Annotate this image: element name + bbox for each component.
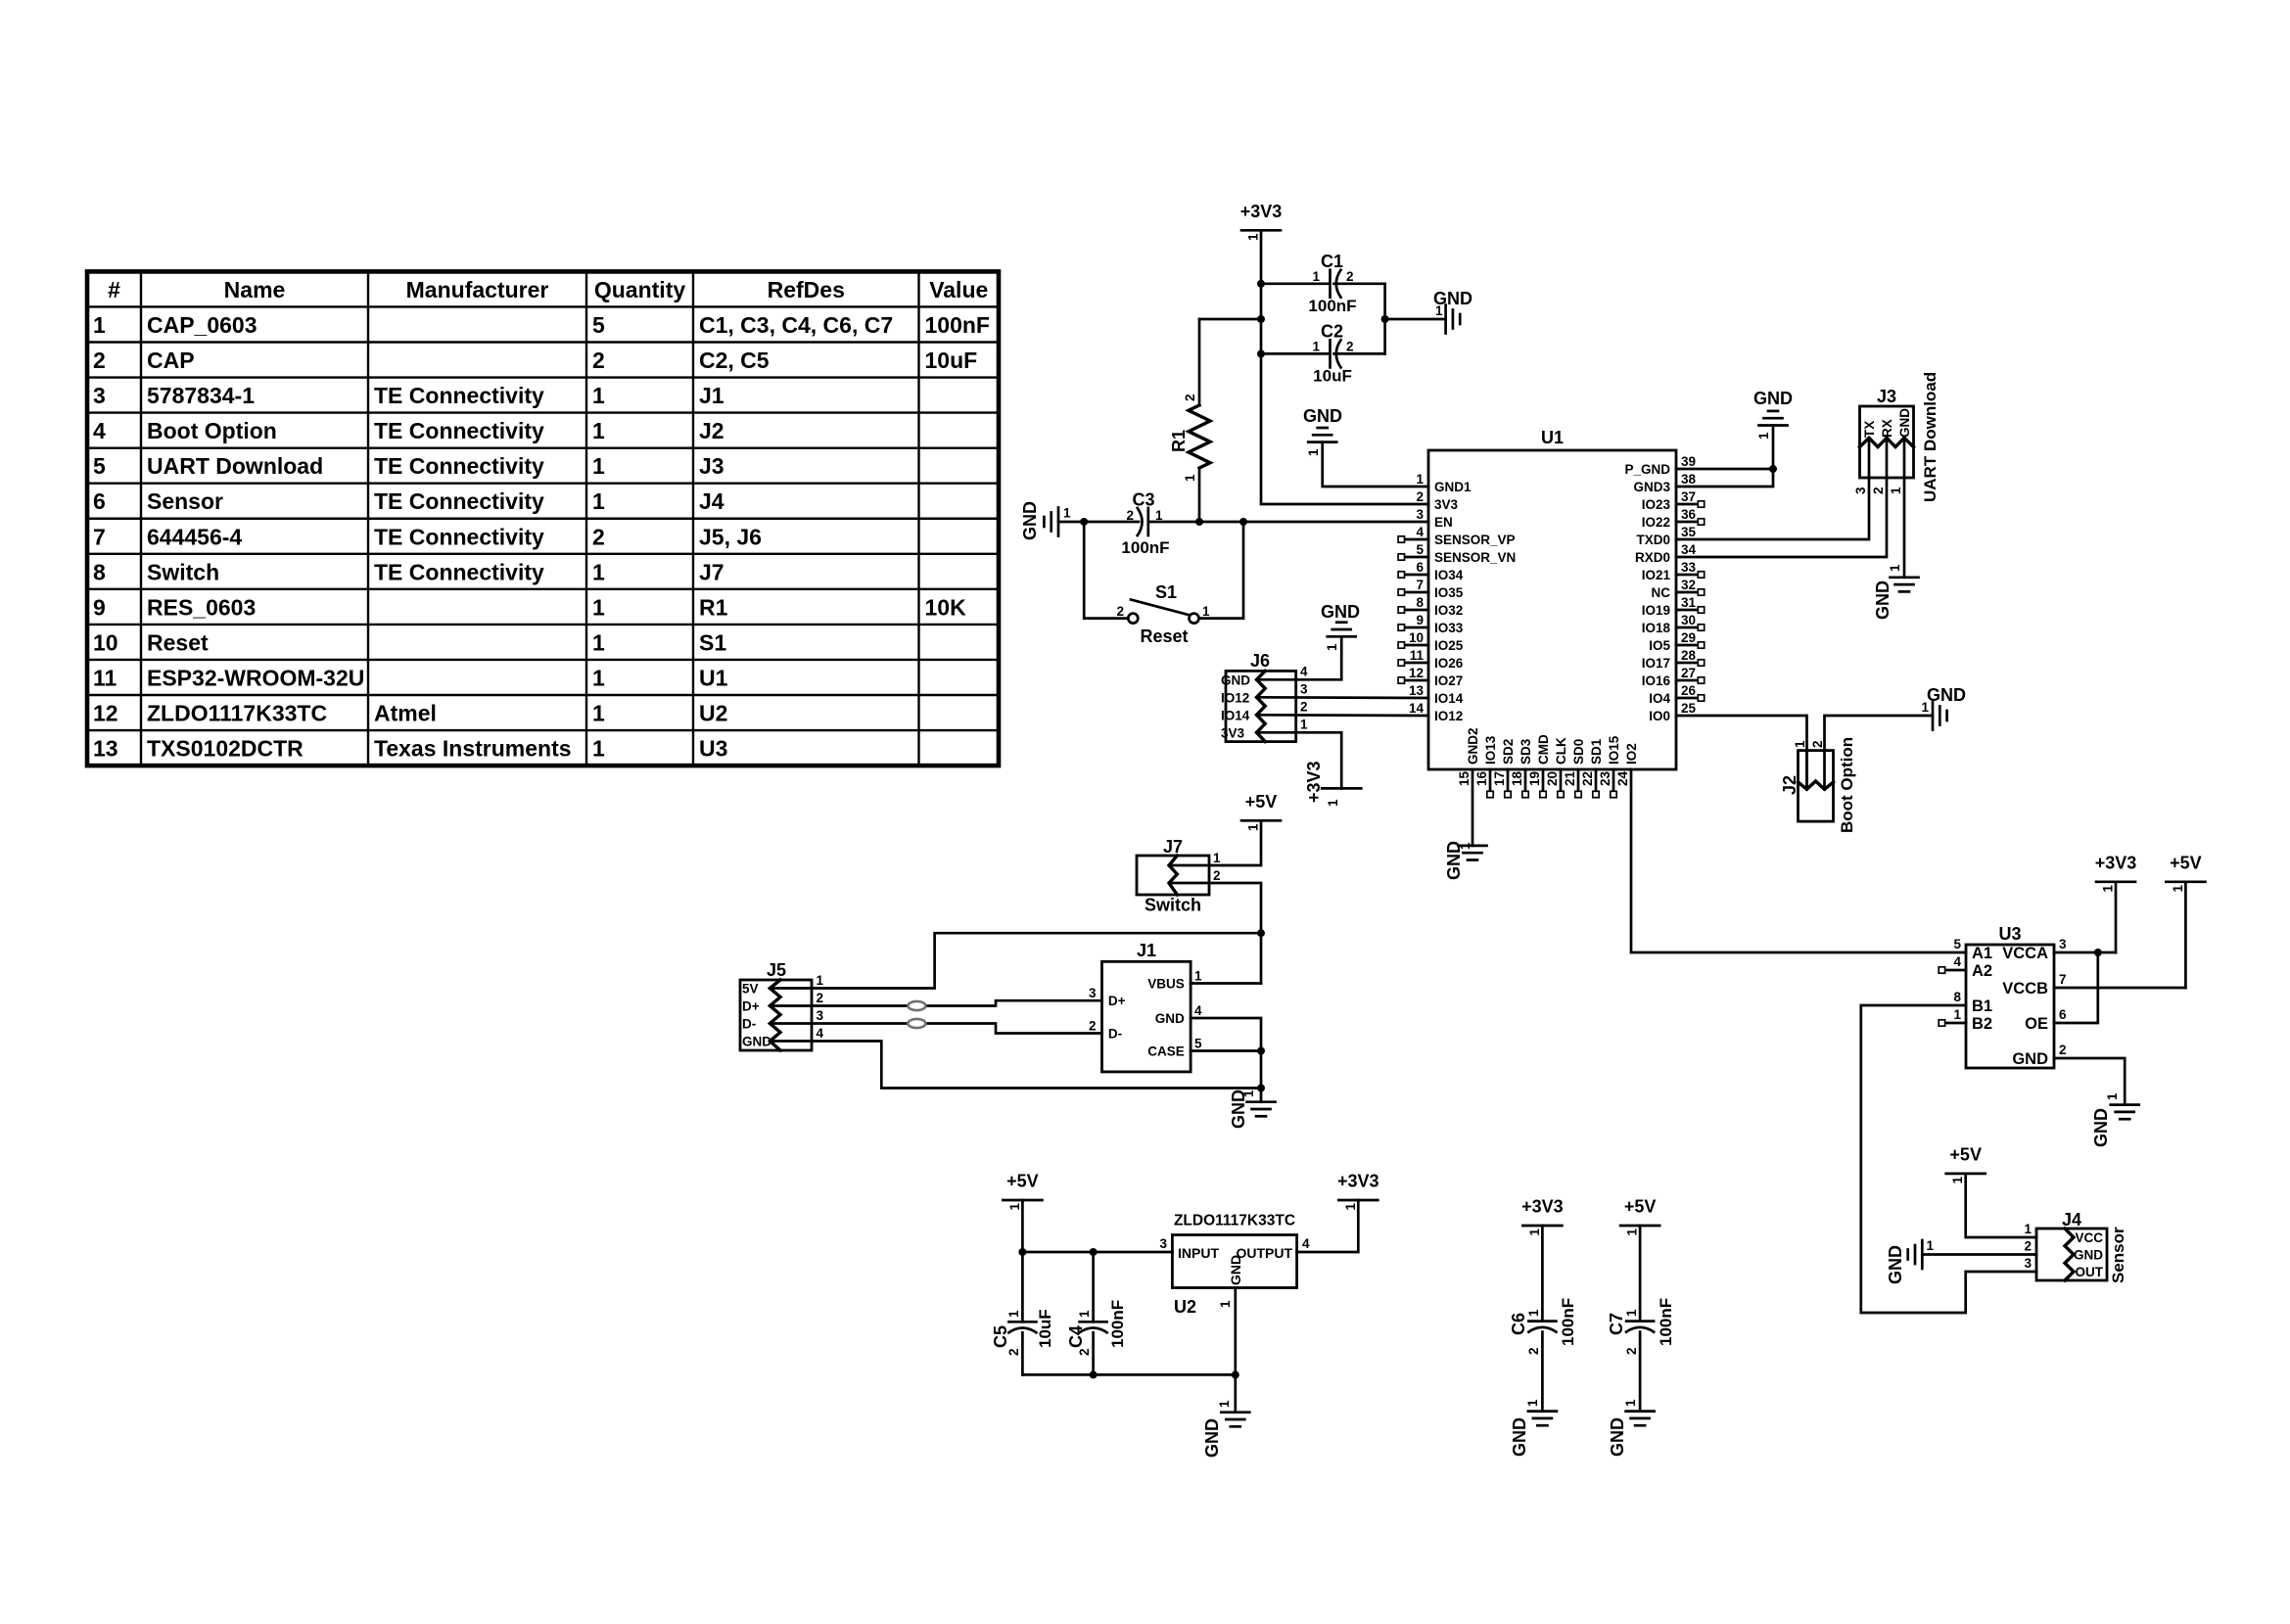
svg-text:6: 6 <box>2059 1007 2067 1022</box>
svg-text:+5V: +5V <box>1949 1144 1982 1164</box>
wire +5V to VCCB <box>2184 882 2187 988</box>
connector J4 Sensor <box>2036 1229 2107 1280</box>
connector J7 Switch <box>1137 856 1209 895</box>
J1 CASE pin5 wire <box>1191 1049 1261 1052</box>
svg-text:1: 1 <box>2171 885 2185 893</box>
svg-text:2: 2 <box>1624 1347 1639 1355</box>
svg-text:ZLDO1117K33TC: ZLDO1117K33TC <box>1174 1213 1295 1230</box>
svg-text:1: 1 <box>592 559 605 584</box>
svg-text:4: 4 <box>1194 1003 1202 1018</box>
svg-text:U2: U2 <box>699 701 727 726</box>
svg-text:35: 35 <box>1681 525 1697 539</box>
wire GND to C3 pin2 <box>1058 521 1139 524</box>
wire to ground below J1 <box>1260 1089 1263 1102</box>
net tie marker D- <box>908 1019 925 1028</box>
svg-text:Boot Option: Boot Option <box>147 418 277 443</box>
svg-text:1: 1 <box>1246 823 1261 831</box>
capacitor C6 100nF <box>1541 1226 1544 1322</box>
svg-text:1: 1 <box>1218 1300 1233 1308</box>
junction GND tap right of C1 <box>1381 315 1389 323</box>
svg-text:17: 17 <box>1492 771 1507 786</box>
svg-text:1: 1 <box>1927 1238 1935 1253</box>
svg-text:J7: J7 <box>1163 837 1183 857</box>
svg-text:VCC: VCC <box>2075 1230 2103 1245</box>
svg-text:IO2: IO2 <box>1624 743 1639 765</box>
svg-text:IO16: IO16 <box>1642 673 1671 688</box>
svg-text:3: 3 <box>93 383 106 408</box>
J6 pin 3 wire to U1 IO14 <box>1257 696 1429 699</box>
svg-text:D+: D+ <box>742 999 760 1014</box>
svg-text:30: 30 <box>1681 613 1696 627</box>
svg-text:IO32: IO32 <box>1434 603 1463 618</box>
svg-text:INPUT: INPUT <box>1178 1245 1219 1261</box>
svg-text:Name: Name <box>224 277 286 302</box>
svg-text:1: 1 <box>1527 1229 1542 1236</box>
svg-text:1: 1 <box>1063 506 1071 521</box>
svg-text:D-: D- <box>1108 1027 1122 1042</box>
svg-text:1: 1 <box>592 383 605 408</box>
svg-text:37: 37 <box>1681 489 1696 504</box>
svg-text:VCCA: VCCA <box>2002 945 2048 962</box>
svg-text:UART Download: UART Download <box>147 453 323 479</box>
junction CASE/GND <box>1257 1047 1265 1055</box>
svg-text:Texas Instruments: Texas Instruments <box>374 736 572 762</box>
ground symbol left of C3 <box>1057 508 1060 536</box>
wire C1/C2 right vertical <box>1383 284 1386 354</box>
wire D+ J5 pin2 to J1 pin3 <box>770 1000 1101 1005</box>
junction GND net <box>1257 1085 1265 1092</box>
svg-text:+5V: +5V <box>1245 792 1278 812</box>
svg-text:TE Connectivity: TE Connectivity <box>374 383 544 408</box>
svg-text:11: 11 <box>93 665 117 690</box>
svg-text:RES_0603: RES_0603 <box>147 594 256 620</box>
junction P_GND/GND3 <box>1769 465 1777 473</box>
svg-text:1: 1 <box>1343 1203 1358 1211</box>
svg-text:SENSOR_VN: SENSOR_VN <box>1434 550 1516 565</box>
svg-text:TE Connectivity: TE Connectivity <box>374 488 544 514</box>
svg-text:100nF: 100nF <box>1308 297 1356 315</box>
svg-text:100nF: 100nF <box>925 312 990 338</box>
svg-text:Sensor: Sensor <box>2109 1227 2127 1283</box>
svg-text:C7: C7 <box>1607 1313 1626 1335</box>
svg-text:1: 1 <box>592 453 605 479</box>
svg-text:TXD0: TXD0 <box>1636 533 1670 547</box>
svg-text:C5: C5 <box>991 1325 1010 1348</box>
svg-text:1: 1 <box>1213 851 1221 865</box>
svg-text:31: 31 <box>1681 595 1697 610</box>
wire GND rail below U2 <box>1022 1373 1235 1376</box>
svg-text:1: 1 <box>1435 303 1443 318</box>
wire U2 OUTPUT to +3V3 <box>1297 1200 1359 1252</box>
svg-text:Manufacturer: Manufacturer <box>406 277 549 302</box>
wire +5V to J7 pin1 <box>1169 820 1261 865</box>
ground symbol above U1 GND1 <box>1308 441 1336 443</box>
svg-text:19: 19 <box>1527 771 1542 786</box>
svg-text:IO25: IO25 <box>1434 638 1464 653</box>
svg-text:27: 27 <box>1681 666 1696 680</box>
svg-text:1: 1 <box>93 312 106 338</box>
svg-text:29: 29 <box>1681 630 1696 645</box>
junction VCCA/OE <box>2094 949 2102 956</box>
wire U1 pin24 IO2 to U3 A1 <box>1631 769 1966 952</box>
svg-text:1: 1 <box>2105 1092 2120 1100</box>
svg-text:1: 1 <box>1006 1310 1021 1318</box>
svg-text:U1: U1 <box>699 665 728 690</box>
svg-text:20: 20 <box>1545 771 1560 786</box>
wire U1 pin39/38 to ground at top right <box>1676 468 1773 471</box>
svg-text:GND: GND <box>1927 685 1966 705</box>
svg-text:12: 12 <box>1409 666 1424 680</box>
svg-text:100nF: 100nF <box>1559 1298 1577 1346</box>
svg-text:J5, J6: J5, J6 <box>699 524 762 549</box>
svg-text:SD3: SD3 <box>1519 738 1533 765</box>
svg-text:4: 4 <box>817 1026 824 1041</box>
svg-text:GND: GND <box>1897 408 1912 438</box>
svg-text:C1, C3, C4, C6, C7: C1, C3, C4, C6, C7 <box>699 312 893 338</box>
svg-text:2: 2 <box>1213 868 1221 883</box>
svg-text:U3: U3 <box>699 736 727 762</box>
svg-text:1: 1 <box>1921 700 1929 715</box>
svg-text:C3: C3 <box>1132 490 1154 510</box>
svg-text:NC: NC <box>1652 585 1671 600</box>
svg-text:UART Download: UART Download <box>1921 372 1939 502</box>
ground symbol below J3 <box>1891 576 1919 579</box>
svg-text:J3: J3 <box>699 453 724 479</box>
svg-text:1: 1 <box>592 629 605 655</box>
svg-text:5787834-1: 5787834-1 <box>147 383 255 408</box>
capacitor C3 100nF <box>1146 508 1149 535</box>
svg-text:GND: GND <box>1303 406 1342 426</box>
J3 pin 1 GND wire down <box>1903 438 1906 578</box>
svg-text:TE Connectivity: TE Connectivity <box>374 453 544 479</box>
svg-text:TXS0102DCTR: TXS0102DCTR <box>147 736 304 762</box>
wire INPUT rail <box>1022 1251 1172 1254</box>
J1 GND pin4 wire <box>1191 1018 1261 1051</box>
svg-text:3V3: 3V3 <box>1221 725 1245 740</box>
svg-text:3: 3 <box>1416 507 1424 522</box>
wire VBUS junction down to J1 VBUS <box>1260 933 1263 983</box>
svg-text:IO33: IO33 <box>1434 621 1464 635</box>
svg-text:1: 1 <box>2024 1222 2032 1236</box>
svg-text:SD1: SD1 <box>1589 738 1604 765</box>
svg-text:1: 1 <box>1325 643 1339 651</box>
svg-text:1: 1 <box>1623 1399 1638 1407</box>
svg-text:IO27: IO27 <box>1434 673 1463 688</box>
svg-text:GND: GND <box>1155 1011 1185 1026</box>
junction VBUS net <box>1257 929 1265 937</box>
svg-text:1: 1 <box>1888 564 1902 572</box>
svg-text:10uF: 10uF <box>1313 367 1352 386</box>
svg-text:2: 2 <box>817 991 824 1005</box>
ground symbol right of C1/C2 <box>1444 305 1447 334</box>
svg-text:23: 23 <box>1598 770 1612 786</box>
svg-text:21: 21 <box>1563 770 1577 786</box>
svg-text:GND: GND <box>1753 389 1793 408</box>
capacitor C5 10uF <box>1021 1252 1024 1322</box>
svg-text:4: 4 <box>1300 664 1308 678</box>
J7 pin2 wire down to VBUS net <box>1169 883 1261 933</box>
ground symbol below U1 pin15 <box>1459 845 1487 848</box>
svg-text:5: 5 <box>592 312 605 338</box>
junction C4 top <box>1090 1248 1098 1256</box>
svg-text:GND: GND <box>1608 1417 1627 1457</box>
svg-text:IO13: IO13 <box>1483 735 1498 765</box>
svg-text:3: 3 <box>2024 1256 2032 1271</box>
svg-text:3: 3 <box>1159 1236 1167 1251</box>
svg-text:2: 2 <box>2024 1239 2032 1254</box>
svg-text:1: 1 <box>1312 340 1320 354</box>
capacitor C1 100nF <box>1261 282 1329 285</box>
junction U2 GND <box>1232 1370 1239 1378</box>
svg-text:+3V3: +3V3 <box>1337 1172 1379 1191</box>
svg-text:GND: GND <box>1221 673 1250 687</box>
svg-text:2: 2 <box>1300 699 1308 714</box>
svg-text:IO4: IO4 <box>1649 691 1670 706</box>
svg-text:32: 32 <box>1681 578 1696 592</box>
svg-text:7: 7 <box>2059 972 2067 987</box>
svg-text:GND: GND <box>1510 1417 1529 1457</box>
svg-text:R1: R1 <box>699 594 728 620</box>
svg-text:C1: C1 <box>1321 252 1343 271</box>
svg-text:1: 1 <box>1950 1176 1965 1183</box>
svg-text:10uF: 10uF <box>925 348 978 373</box>
svg-text:1: 1 <box>817 973 824 988</box>
svg-text:A1: A1 <box>1972 945 1992 962</box>
svg-text:S1: S1 <box>699 629 726 655</box>
svg-text:J2: J2 <box>699 418 724 443</box>
junction C5 top <box>1018 1248 1026 1256</box>
svg-text:GND: GND <box>1321 602 1360 622</box>
svg-text:26: 26 <box>1681 683 1697 698</box>
svg-text:IO14: IO14 <box>1434 691 1464 706</box>
svg-text:3: 3 <box>1089 986 1097 1000</box>
junction R1 tap <box>1257 315 1265 323</box>
svg-text:1: 1 <box>1217 1400 1232 1408</box>
svg-text:P_GND: P_GND <box>1624 462 1670 477</box>
svg-text:15: 15 <box>1457 770 1472 786</box>
svg-text:11: 11 <box>1410 648 1425 663</box>
svg-text:34: 34 <box>1681 542 1697 557</box>
J6 pin 2 wire to U1 IO12 <box>1257 714 1429 717</box>
svg-text:CLK: CLK <box>1554 737 1568 765</box>
svg-text:1: 1 <box>1306 448 1321 456</box>
ground symbol above J6 pin4 <box>1328 635 1356 638</box>
svg-text:2: 2 <box>1126 508 1134 523</box>
ground symbol top right <box>1759 424 1788 427</box>
svg-text:D-: D- <box>742 1017 756 1032</box>
capacitor C2 10uF <box>1261 352 1329 355</box>
svg-text:C4: C4 <box>1066 1325 1086 1348</box>
svg-text:3V3: 3V3 <box>1434 497 1459 512</box>
svg-text:Reset: Reset <box>147 629 209 655</box>
wire down to GND junction <box>1260 1051 1263 1089</box>
connector J5 <box>740 980 812 1050</box>
svg-text:2: 2 <box>1810 740 1825 748</box>
svg-text:1: 1 <box>1007 1203 1022 1211</box>
svg-text:+3V3: +3V3 <box>2095 854 2137 873</box>
svg-text:1: 1 <box>1202 604 1210 619</box>
svg-text:2: 2 <box>2059 1043 2067 1057</box>
svg-text:ESP32-WROOM-32U: ESP32-WROOM-32U <box>147 665 364 690</box>
svg-text:2: 2 <box>1077 1348 1092 1356</box>
svg-text:1: 1 <box>1241 1090 1256 1097</box>
svg-text:1: 1 <box>1416 472 1424 487</box>
svg-text:4: 4 <box>1416 525 1424 539</box>
ground symbol below U3 <box>2111 1103 2139 1106</box>
svg-text:8: 8 <box>93 559 106 584</box>
svg-text:SENSOR_VP: SENSOR_VP <box>1434 533 1516 547</box>
svg-text:J1: J1 <box>699 383 724 408</box>
svg-text:GND3: GND3 <box>1633 480 1670 494</box>
ground symbol left of J4 <box>1921 1240 1924 1269</box>
svg-text:1: 1 <box>1077 1310 1092 1318</box>
svg-text:B1: B1 <box>1972 998 1992 1015</box>
svg-text:IO34: IO34 <box>1434 568 1464 582</box>
svg-text:VCCB: VCCB <box>2002 980 2048 998</box>
svg-text:IO15: IO15 <box>1607 735 1621 765</box>
junction S1 right tap on EN wire <box>1239 518 1247 526</box>
svg-text:4: 4 <box>1302 1236 1310 1251</box>
svg-text:2: 2 <box>592 524 605 549</box>
junction R1 bottom on EN wire <box>1195 518 1203 526</box>
svg-text:8: 8 <box>1953 990 1961 1004</box>
J3 pin 2 RX wire to U1 RXD0 <box>1676 438 1887 557</box>
J6 pin 4 wire to ground <box>1257 636 1342 679</box>
svg-text:TX: TX <box>1862 421 1877 438</box>
svg-text:C2, C5: C2, C5 <box>699 348 770 373</box>
capacitor C4 100nF <box>1092 1252 1095 1322</box>
wire VBUS net to J5 pin1 <box>812 933 1261 988</box>
junction S1 left tap <box>1080 518 1088 526</box>
svg-text:SD0: SD0 <box>1571 739 1586 765</box>
svg-text:2: 2 <box>1526 1347 1541 1355</box>
svg-text:28: 28 <box>1681 648 1697 663</box>
svg-text:GND: GND <box>1020 501 1040 540</box>
svg-text:1: 1 <box>1300 717 1308 731</box>
svg-text:U3: U3 <box>1998 924 2021 944</box>
J6 pin 1 wire to +3V3 <box>1257 732 1342 788</box>
svg-text:644456-4: 644456-4 <box>147 524 242 549</box>
svg-text:IO19: IO19 <box>1642 603 1670 618</box>
svg-text:5: 5 <box>93 453 106 479</box>
connector J2 Boot Option <box>1799 751 1834 822</box>
svg-text:1: 1 <box>592 488 605 514</box>
svg-text:S1: S1 <box>1155 582 1177 602</box>
svg-text:13: 13 <box>1409 683 1425 698</box>
svg-text:CASE: CASE <box>1147 1044 1185 1059</box>
svg-text:16: 16 <box>1474 770 1489 786</box>
svg-text:14: 14 <box>1409 701 1425 716</box>
wire GND to U1 pin1 GND1 <box>1323 442 1428 487</box>
svg-text:SD2: SD2 <box>1501 739 1516 765</box>
svg-text:RefDes: RefDes <box>768 277 845 302</box>
ground symbol below C6 <box>1528 1410 1557 1413</box>
svg-text:CMD: CMD <box>1536 734 1551 765</box>
svg-text:2: 2 <box>1346 340 1354 354</box>
J4 GND pin2 wire <box>1922 1253 2036 1256</box>
svg-text:5: 5 <box>1953 937 1961 951</box>
svg-text:J7: J7 <box>699 559 724 584</box>
svg-text:10: 10 <box>1409 630 1424 645</box>
svg-text:GND: GND <box>1886 1245 1905 1284</box>
ground symbol below U2 <box>1221 1411 1249 1414</box>
IC U1 ESP32-WROOM-32U <box>1428 450 1676 769</box>
svg-text:1: 1 <box>592 418 605 443</box>
svg-text:33: 33 <box>1681 560 1697 575</box>
svg-text:1: 1 <box>1312 269 1320 284</box>
svg-text:RXD0: RXD0 <box>1635 550 1670 565</box>
svg-text:GND1: GND1 <box>1434 480 1472 494</box>
svg-text:2: 2 <box>1346 269 1354 284</box>
svg-text:36: 36 <box>1681 507 1697 522</box>
svg-text:+3V3: +3V3 <box>1240 202 1283 221</box>
svg-text:100nF: 100nF <box>1657 1298 1675 1346</box>
svg-text:IO21: IO21 <box>1642 568 1671 582</box>
svg-text:9: 9 <box>93 594 106 620</box>
svg-text:Atmel: Atmel <box>374 701 437 726</box>
power symbol +3V3 below J6 <box>1322 787 1361 790</box>
svg-text:IO26: IO26 <box>1434 656 1464 671</box>
connector J3 UART Download <box>1860 406 1914 478</box>
svg-text:10uF: 10uF <box>1036 1309 1054 1348</box>
svg-text:#: # <box>108 277 120 302</box>
svg-text:CAP_0603: CAP_0603 <box>147 312 257 338</box>
svg-text:4: 4 <box>1953 954 1961 969</box>
svg-text:3: 3 <box>2059 937 2067 951</box>
svg-text:J1: J1 <box>1137 941 1156 960</box>
svg-text:OUT: OUT <box>2076 1265 2104 1279</box>
svg-text:IO0: IO0 <box>1649 709 1670 723</box>
J1 VBUS pin1 wire <box>1191 982 1261 985</box>
svg-text:1: 1 <box>1625 1229 1640 1236</box>
svg-text:1: 1 <box>1458 842 1472 850</box>
net tie marker D+ <box>908 1001 925 1010</box>
svg-text:IO22: IO22 <box>1642 515 1670 530</box>
svg-text:1: 1 <box>592 594 605 620</box>
svg-text:OUTPUT: OUTPUT <box>1236 1245 1292 1261</box>
wire +5V down to INPUT rail <box>1021 1200 1024 1252</box>
svg-text:U2: U2 <box>1174 1297 1196 1317</box>
svg-text:ZLDO1117K33TC: ZLDO1117K33TC <box>147 701 327 726</box>
svg-text:+3V3: +3V3 <box>1521 1197 1564 1217</box>
capacitor C7 100nF <box>1639 1226 1642 1322</box>
svg-text:VBUS: VBUS <box>1147 977 1185 992</box>
svg-text:1: 1 <box>1155 508 1163 523</box>
svg-text:5: 5 <box>1194 1037 1202 1051</box>
svg-text:TE Connectivity: TE Connectivity <box>374 524 544 549</box>
svg-text:24: 24 <box>1615 770 1630 786</box>
svg-text:IO5: IO5 <box>1649 638 1670 653</box>
ground symbol below J1 <box>1247 1100 1276 1103</box>
svg-text:IO18: IO18 <box>1642 621 1671 635</box>
svg-text:OE: OE <box>2025 1015 2048 1033</box>
svg-text:D+: D+ <box>1108 994 1126 1008</box>
svg-text:1: 1 <box>592 665 605 690</box>
svg-text:GND: GND <box>1202 1418 1222 1458</box>
svg-text:1: 1 <box>1526 1309 1541 1317</box>
svg-text:7: 7 <box>1416 578 1424 592</box>
svg-text:1: 1 <box>1889 487 1903 494</box>
svg-text:A2: A2 <box>1972 962 1992 980</box>
resistor R1 10K <box>1199 318 1261 321</box>
ground symbol below C7 <box>1626 1410 1655 1413</box>
svg-text:8: 8 <box>1416 595 1424 610</box>
junction C4 bottom <box>1090 1370 1098 1378</box>
wire U2 GND pin1 <box>1234 1288 1237 1375</box>
svg-text:5: 5 <box>1416 542 1424 557</box>
svg-text:Sensor: Sensor <box>147 488 223 514</box>
svg-text:3: 3 <box>817 1008 824 1023</box>
